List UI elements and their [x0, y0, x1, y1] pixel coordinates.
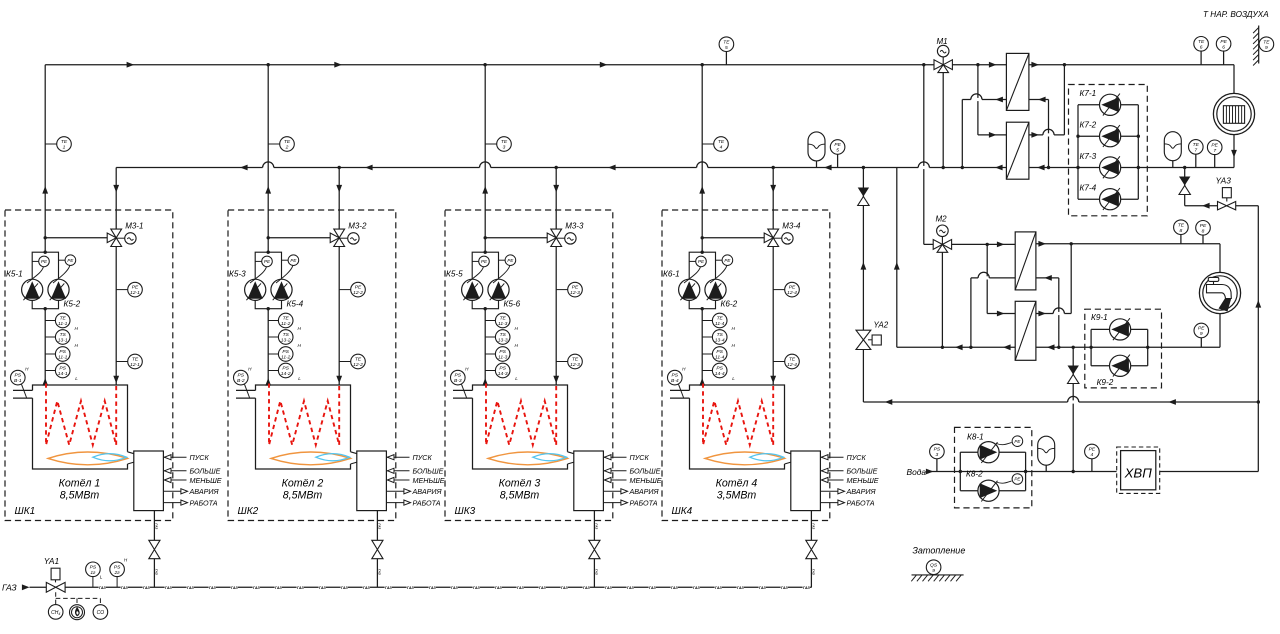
wire: K7 suction/discharge manifolds and branches [1077, 105, 1079, 199]
svg-text:ГАЗ: ГАЗ [759, 586, 767, 590]
svg-text:6: 6 [1200, 44, 1203, 50]
signal АВАРИЯ boiler 4 [820, 490, 843, 492]
wire: PE5 stub [837, 154, 839, 167]
valve M1 [942, 57, 944, 65]
svg-text:PS: PS [716, 349, 723, 355]
svg-text:TE: TE [61, 139, 68, 145]
svg-text:12-4: 12-4 [787, 362, 797, 368]
draft sensor PS B-3 [462, 384, 467, 397]
svg-text:К6-2: К6-2 [721, 300, 738, 309]
burner control box boiler 3 [574, 451, 604, 511]
svg-text:6: 6 [1222, 44, 1225, 50]
burner flame (orange) boiler 4 [705, 452, 785, 465]
svg-text:PE: PE [698, 259, 705, 264]
pump К9-1 [1110, 319, 1131, 340]
svg-text:TE: TE [501, 139, 508, 145]
wire: PE9 stub [1200, 338, 1202, 348]
wire: PE7 stub [1214, 154, 1216, 167]
signal БОЛЬШЕ boiler 4 [820, 470, 843, 472]
sensor PE 6 [1216, 37, 1231, 52]
svg-text:8,5МВт: 8,5МВт [60, 490, 100, 502]
arrows on DHW supply [997, 242, 1005, 248]
boiler unit 4 group [662, 65, 879, 588]
svg-text:ГАЗ: ГАЗ [812, 569, 816, 575]
signal МЕНЬШЕ boiler 3 [603, 479, 626, 481]
svg-text:12-1: 12-1 [130, 290, 140, 296]
svg-text:B-4: B-4 [671, 378, 679, 384]
sensor PE 12-3 [556, 289, 568, 291]
svg-text:РАБОТА: РАБОТА [190, 499, 218, 508]
sensor TE 12-2 [339, 361, 351, 363]
sensor PE 12-2 [339, 289, 351, 291]
signal АВАРИЯ boiler 2 [386, 490, 409, 492]
signal РАБОТА boiler 2 [386, 502, 409, 504]
signal БОЛЬШЕ boiler 3 [603, 470, 626, 472]
svg-text:К8-1: К8-1 [967, 433, 984, 442]
svg-text:TE: TE [1178, 222, 1185, 228]
sensor PS 11-1 [45, 353, 55, 355]
svg-text:13-3: 13-3 [498, 338, 508, 344]
signal РАБОТА boiler 3 [603, 502, 626, 504]
svg-text:12-2: 12-2 [353, 362, 363, 368]
svg-text:11-4: 11-4 [715, 355, 725, 361]
sensor TE 9 [1259, 37, 1274, 52]
svg-text:PE: PE [355, 285, 362, 291]
svg-text:13-4: 13-4 [715, 338, 725, 344]
svg-text:Котёл 2: Котёл 2 [282, 478, 324, 490]
wire: boiler 3 M3 return drop [555, 168, 557, 386]
svg-text:9: 9 [932, 568, 935, 574]
wire: make-up riser with YA2 [862, 168, 864, 403]
boiler Котёл 4 body [690, 385, 785, 469]
boiler unit 2 group [228, 65, 445, 588]
burner flame (blue) boiler 1 [93, 454, 127, 461]
svg-text:М3-1: М3-1 [125, 221, 143, 230]
svg-text:TE: TE [283, 316, 290, 322]
sensor PS 2г [116, 577, 118, 588]
arrows on HX1 return lines [995, 97, 1003, 103]
svg-text:ГАЗ: ГАЗ [378, 569, 382, 575]
sensor PS 11-2 [268, 353, 278, 355]
wire: recirculation tee to M3-3 [485, 237, 547, 239]
heat coil (red) boiler 1 [46, 384, 116, 446]
svg-text:11-2: 11-2 [281, 355, 291, 361]
svg-text:12-3: 12-3 [570, 290, 580, 296]
sensor PE 5 [830, 140, 845, 155]
wire: raw water line through K8 to XBn [928, 471, 1117, 473]
boiler Котёл 3 body [473, 385, 568, 469]
sensor PS 11-3 [485, 353, 495, 355]
svg-text:PS: PS [282, 366, 289, 372]
sensor TE 11-3 [485, 320, 495, 322]
svg-text:ГАЗ: ГАЗ [2, 583, 17, 593]
svg-text:TE: TE [500, 316, 507, 322]
pump К8-1 [978, 442, 999, 463]
wire: M2 hot supply riser [923, 65, 925, 245]
svg-text:К7-2: К7-2 [1080, 121, 1097, 130]
svg-text:QS: QS [930, 562, 938, 568]
arrows on DHW returns [955, 344, 963, 350]
sensor TE 11-2 [268, 320, 278, 322]
sensor TS 13-3 [485, 336, 495, 338]
wire: pump group manifold К5-5/К5-6 [472, 252, 498, 309]
wire: treated water riser x=1258 [1257, 206, 1259, 472]
sensor PS 3 [930, 444, 945, 459]
temperature sensor TE 3 [485, 143, 497, 145]
signal РАБОТА boiler 1 [163, 502, 186, 504]
wire: supply header M1 to HX1 [952, 64, 1006, 66]
wire: return header (boilers) [116, 167, 1006, 169]
heat exchanger HX4 [1015, 301, 1036, 360]
pressure sensor PE of pump К5-4 [282, 259, 289, 261]
wire: HX4 secondary outlet riser [1036, 313, 1071, 315]
heat coil (red) boiler 2 [269, 384, 339, 446]
wire: crossing hop [1068, 400, 1079, 403]
svg-text:ГАЗ: ГАЗ [451, 586, 459, 590]
wire: crossing hop [697, 166, 708, 169]
svg-text:ГАЗ: ГАЗ [253, 586, 261, 590]
sensor TE 11-4 [702, 320, 712, 322]
svg-text:М3-3: М3-3 [565, 221, 584, 230]
wire: recirculation tee to M3-4 [702, 237, 764, 239]
svg-text:L: L [515, 376, 518, 381]
svg-text:ГАЗ: ГАЗ [99, 586, 107, 590]
expansion tank (return header) [808, 132, 825, 161]
svg-text:7: 7 [1213, 148, 1216, 154]
svg-text:11-1: 11-1 [58, 355, 68, 361]
svg-text:РАБОТА: РАБОТА [413, 499, 441, 508]
pressure sensor PE of pump К6-1 [689, 260, 696, 262]
pump К5-4 [271, 279, 292, 300]
arrow water inlet [926, 469, 934, 475]
wire: TE6 stub [1200, 51, 1202, 65]
svg-text:YA2: YA2 [874, 321, 889, 330]
svg-text:ГАЗ: ГАЗ [187, 586, 195, 590]
svg-text:3: 3 [936, 452, 939, 458]
svg-text:L: L [732, 376, 735, 381]
svg-text:PS: PS [716, 366, 723, 372]
temperature sensor TE 1 [45, 143, 57, 145]
svg-text:PS: PS [15, 373, 22, 379]
wire: M1 mixing drop [942, 65, 944, 168]
svg-text:ГАЗ: ГАЗ [275, 586, 283, 590]
pump К7-1 [1100, 94, 1121, 115]
wire: HX2 secondary outlet riser [1029, 134, 1065, 136]
svg-text:PE: PE [132, 285, 139, 291]
heat exchanger HX3 [1015, 232, 1036, 290]
wire: crossing hop [1043, 133, 1054, 136]
burner nozzle boiler 1 [128, 452, 135, 464]
svg-text:РАБОТА: РАБОТА [847, 499, 875, 508]
svg-text:PS: PS [499, 349, 506, 355]
svg-text:ГАЗ: ГАЗ [781, 586, 789, 590]
arrow gas inlet [22, 584, 30, 590]
sensor PS 1г [92, 577, 94, 588]
svg-text:11-1: 11-1 [58, 321, 68, 327]
wire: recirculation tee to M3-1 [45, 237, 107, 239]
gas analyzer CO [93, 605, 108, 620]
svg-text:TS: TS [283, 332, 290, 338]
pressure sensor PE of pump К5-2 [59, 259, 66, 261]
wire: HX3 primary return [971, 277, 1015, 279]
svg-text:К5-1: К5-1 [6, 270, 23, 279]
sensor PE pump К8-1 [997, 443, 1012, 445]
burner control box boiler 4 [791, 451, 821, 511]
wire: pump group manifold К5-1/К5-2 [32, 252, 58, 309]
K7 pump group boundary [1069, 85, 1148, 216]
wire: gas drop boiler 1 [153, 511, 155, 541]
arrow up boiler 4 supply [699, 186, 705, 194]
hand valve on gas drop 3 [589, 540, 600, 549]
sensor PE 8 [1196, 221, 1211, 236]
arrow up boiler 2 supply [265, 186, 271, 194]
svg-text:11-2: 11-2 [281, 321, 291, 327]
draft sensor PS B-2 [245, 384, 250, 397]
pressure sensor PE of pump К5-1 [32, 260, 39, 262]
pressure sensor PE of pump К5-5 [472, 260, 479, 262]
svg-text:К8-2: К8-2 [966, 470, 983, 479]
svg-text:4: 4 [720, 145, 723, 151]
svg-text:B-1: B-1 [14, 378, 22, 384]
svg-text:CO: CO [97, 610, 105, 616]
svg-text:PE: PE [481, 259, 488, 264]
flue duct boiler 4 [670, 389, 690, 391]
svg-text:ПУСК: ПУСК [847, 453, 867, 462]
burner flame (blue) boiler 3 [533, 454, 567, 461]
svg-text:4: 4 [1091, 452, 1094, 458]
svg-text:ГАЗ: ГАЗ [595, 523, 599, 529]
svg-text:14-2: 14-2 [281, 371, 291, 377]
svg-text:9: 9 [1265, 45, 1268, 51]
wire: gas inlet to YA1 [30, 586, 47, 588]
svg-text:АВАРИЯ: АВАРИЯ [846, 487, 876, 496]
hand valve on gas drop 4 [806, 540, 817, 549]
svg-text:ГАЗ: ГАЗ [595, 569, 599, 575]
svg-text:9: 9 [1200, 331, 1203, 337]
wire: recirculation tee to M3-2 [268, 237, 330, 239]
svg-text:TE: TE [718, 139, 725, 145]
svg-text:PE: PE [1211, 142, 1218, 148]
arrows on return header [240, 165, 248, 171]
arrow down M3 drop 2 [336, 185, 342, 193]
sensor TE 12-4 [773, 361, 785, 363]
sensor TE 11-1 [45, 320, 55, 322]
svg-text:PE: PE [724, 258, 731, 263]
wire: HX1 secondary inlet riser [1029, 99, 1049, 101]
wire: heating supply HX1 to radiator riser [1029, 64, 1234, 66]
sensor TE 6 [1194, 37, 1209, 52]
draft sensor PS B-1 [22, 384, 27, 397]
check valve on heating make-up [1179, 177, 1190, 186]
svg-text:B-2: B-2 [237, 378, 245, 384]
arrow on YA3 line [1202, 203, 1210, 209]
svg-text:ШК1: ШК1 [15, 506, 36, 517]
svg-text:К9-1: К9-1 [1091, 313, 1108, 322]
svg-text:PE: PE [1014, 477, 1021, 482]
three-way valve М3-3 [551, 229, 562, 238]
signal БОЛЬШЕ boiler 2 [386, 470, 409, 472]
svg-text:БОЛЬШЕ: БОЛЬШЕ [413, 467, 444, 476]
wire: boiler 4 supply riser [701, 65, 703, 253]
burner control box boiler 2 [357, 451, 387, 511]
svg-text:ШК2: ШК2 [238, 506, 259, 517]
arrows on make-up line [885, 399, 893, 405]
wire: PE8 stub [1202, 235, 1204, 244]
svg-text:13-1: 13-1 [58, 338, 68, 344]
K8 pump group boundary [955, 427, 1032, 508]
svg-text:TS: TS [717, 332, 724, 338]
burner control box boiler 1 [134, 451, 164, 511]
wire: TE8 stub [1180, 235, 1182, 244]
sensor PS 14-1 [45, 370, 55, 372]
heat coil (red) boiler 3 [486, 384, 556, 446]
expansion tank (heating circuit) [1164, 132, 1181, 161]
wire: gas drop boiler 3 [593, 511, 595, 541]
sensor TE 7 [1189, 140, 1204, 155]
signal АВАРИЯ boiler 1 [163, 490, 186, 492]
svg-text:TE: TE [572, 357, 579, 363]
pressure sensor PE of pump К5-6 [499, 259, 506, 261]
signal БОЛЬШЕ boiler 1 [163, 470, 186, 472]
svg-text:АВАРИЯ: АВАРИЯ [412, 487, 442, 496]
svg-text:7: 7 [1194, 148, 1197, 154]
svg-text:PE: PE [1089, 447, 1096, 453]
svg-text:Т НАР. ВОЗДУХА: Т НАР. ВОЗДУХА [1203, 10, 1269, 19]
DHW tap icon [1199, 272, 1240, 313]
valve M2 [941, 237, 943, 245]
wire: boiler make-up line y=402 [863, 401, 1258, 403]
svg-text:ГАЗ: ГАЗ [627, 586, 635, 590]
svg-text:ГАЗ: ГАЗ [671, 586, 679, 590]
wire: gas drop boiler 2 [376, 511, 378, 541]
svg-text:B-3: B-3 [454, 378, 462, 384]
svg-text:11-3: 11-3 [498, 355, 508, 361]
wire: TE7 stub [1195, 154, 1197, 167]
svg-text:К7-1: К7-1 [1080, 89, 1097, 98]
wire: crossing hop [978, 276, 989, 279]
burner flame (blue) boiler 4 [750, 454, 784, 461]
svg-text:Затопление: Затопление [912, 546, 965, 556]
svg-text:14-3: 14-3 [498, 371, 508, 377]
svg-text:М3-4: М3-4 [782, 221, 801, 230]
svg-text:ГАЗ: ГАЗ [715, 586, 723, 590]
wire: HX1 primary return [962, 99, 1006, 101]
pump К5-5 [462, 279, 483, 300]
svg-text:3: 3 [503, 145, 506, 151]
wire: DHW make-up branch with check valve [1072, 347, 1074, 471]
sensor PS 14-2 [268, 370, 278, 372]
wire: boiler 2 supply riser [267, 65, 269, 253]
svg-text:12-1: 12-1 [130, 362, 140, 368]
svg-text:ГАЗ: ГАЗ [378, 523, 382, 529]
wire: boiler 1 M3 return drop [115, 168, 117, 386]
wire: gas header [65, 586, 84, 588]
pump К5-6 [488, 279, 509, 300]
draft sensor PS B-4 [679, 384, 684, 397]
svg-text:12-4: 12-4 [787, 290, 797, 296]
signal АВАРИЯ boiler 3 [603, 490, 626, 492]
sensor PE 7 [1207, 140, 1222, 155]
svg-text:К6-1: К6-1 [663, 270, 680, 279]
flue duct boiler 2 [236, 389, 256, 391]
svg-text:Вода: Вода [907, 467, 927, 477]
temperature sensor TE 4 [702, 143, 714, 145]
svg-text:ГАЗ: ГАЗ [429, 586, 437, 590]
svg-text:ГАЗ: ГАЗ [737, 586, 745, 590]
wire: XBn outlet run [1160, 471, 1259, 473]
svg-text:TE: TE [1193, 142, 1200, 148]
svg-text:Котёл 1: Котёл 1 [59, 478, 101, 490]
solenoid valve YA1 [46, 582, 55, 592]
svg-text:ГАЗ: ГАЗ [495, 586, 503, 590]
flue duct boiler 3 [453, 389, 473, 391]
svg-text:ГАЗ: ГАЗ [605, 586, 613, 590]
burner flame (orange) boiler 2 [271, 452, 351, 465]
svg-text:PS: PS [90, 564, 97, 570]
svg-text:БОЛЬШЕ: БОЛЬШЕ [847, 467, 878, 476]
burner flame (orange) boiler 1 [48, 452, 128, 465]
svg-text:К5-3: К5-3 [229, 270, 246, 279]
svg-text:ШК4: ШК4 [672, 506, 693, 517]
sensor PE 12-1 [116, 289, 128, 291]
wire: crossing hop [480, 166, 491, 169]
signal МЕНЬШЕ boiler 4 [820, 479, 843, 481]
sensor PE 9 [1194, 323, 1209, 338]
svg-text:ГАЗ: ГАЗ [341, 586, 349, 590]
wire: pump group manifold К6-1/К6-2 [689, 252, 715, 309]
flue duct boiler 1 [13, 389, 33, 391]
svg-text:PS: PS [499, 366, 506, 372]
heating system icon (radiator) [1213, 93, 1254, 134]
svg-text:МЕНЬШЕ: МЕНЬШЕ [190, 476, 222, 485]
svg-text:14-1: 14-1 [58, 371, 68, 377]
K9 pump group boundary [1085, 309, 1162, 388]
wire: heating make-up branch to YA3 [1184, 168, 1186, 206]
pump К7-3 [1100, 157, 1121, 178]
pump К7-4 [1100, 189, 1121, 210]
gas analyzer CH4 [48, 605, 63, 620]
wire: crossing hop [918, 166, 929, 169]
svg-text:TE: TE [717, 316, 724, 322]
signal ПУСК boiler 4 [820, 456, 843, 458]
sensor PS 14-3 [485, 370, 495, 372]
signal МЕНЬШЕ boiler 2 [386, 479, 409, 481]
svg-text:ГАЗ: ГАЗ [121, 586, 129, 590]
arrow radiator riser down [1231, 150, 1237, 158]
burner flame (blue) boiler 2 [316, 454, 350, 461]
pump К5-2 [48, 279, 69, 300]
wire: DHW primary return header [897, 346, 1015, 348]
svg-text:ГАЗ: ГАЗ [407, 586, 415, 590]
sensor QS 9 (flooding) [926, 560, 941, 575]
wire: DHW supply header to tap [1036, 243, 1220, 245]
svg-text:К7-3: К7-3 [1080, 152, 1097, 161]
wire: gas drop boiler 4 [810, 511, 812, 541]
temperature sensor TE 2 [268, 143, 280, 145]
signal ПУСК boiler 3 [603, 456, 626, 458]
expansion tank (make-up water) [1038, 436, 1055, 465]
svg-text:1: 1 [63, 145, 66, 151]
svg-text:YA3: YA3 [1216, 176, 1232, 186]
wire: HX2 primary feed branch [977, 65, 979, 135]
svg-text:PE: PE [1198, 326, 1205, 332]
sensor TE 5 [719, 37, 734, 52]
wire: boiler 4 M3 return drop [772, 168, 774, 386]
three-way valve М3-4 [768, 229, 779, 238]
svg-text:L: L [75, 376, 78, 381]
svg-text:PE: PE [67, 258, 74, 263]
flame detector [70, 605, 85, 620]
